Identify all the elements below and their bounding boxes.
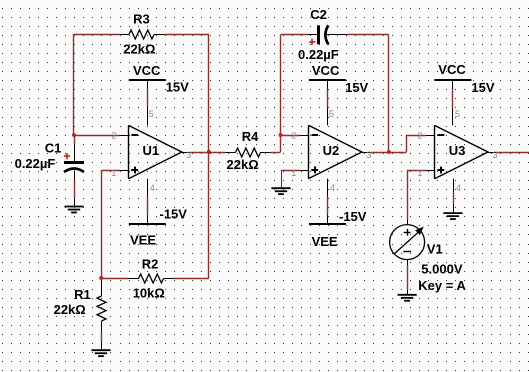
svg-text:0.22µF: 0.22µF	[298, 47, 339, 62]
svg-text:1: 1	[417, 168, 422, 178]
svg-text:R1: R1	[74, 287, 91, 302]
svg-text:U3: U3	[449, 143, 466, 158]
svg-text:15V: 15V	[345, 80, 368, 95]
svg-text:U2: U2	[323, 143, 340, 158]
svg-text:2: 2	[111, 131, 116, 141]
svg-text:U1: U1	[143, 143, 160, 158]
svg-text:VCC: VCC	[133, 63, 161, 78]
svg-text:15V: 15V	[166, 80, 189, 95]
svg-text:VCC: VCC	[438, 62, 466, 77]
svg-text:4: 4	[150, 183, 155, 193]
svg-text:V1: V1	[427, 241, 443, 256]
svg-text:R2: R2	[142, 257, 159, 272]
svg-text:VEE: VEE	[312, 234, 338, 249]
svg-text:R3: R3	[133, 12, 150, 27]
svg-text:2: 2	[417, 131, 422, 141]
svg-text:22kΩ: 22kΩ	[54, 302, 86, 317]
svg-text:3: 3	[366, 150, 371, 160]
svg-text:3: 3	[186, 150, 191, 160]
svg-text:5: 5	[329, 109, 334, 119]
svg-text:-15V: -15V	[160, 207, 188, 222]
svg-text:C2: C2	[310, 7, 327, 22]
svg-text:22kΩ: 22kΩ	[123, 41, 155, 56]
svg-text:VEE: VEE	[130, 233, 156, 248]
svg-text:15V: 15V	[471, 80, 494, 95]
svg-text:4: 4	[456, 183, 461, 193]
svg-text:1: 1	[111, 168, 116, 178]
svg-text:-15V: -15V	[339, 209, 367, 224]
svg-text:5.000V: 5.000V	[421, 261, 463, 276]
svg-text:22kΩ: 22kΩ	[227, 157, 259, 172]
svg-text:2: 2	[291, 131, 296, 141]
svg-text:C1: C1	[45, 141, 62, 156]
svg-text:0.22µF: 0.22µF	[15, 156, 56, 171]
svg-text:Key = A: Key = A	[418, 278, 466, 293]
svg-text:VCC: VCC	[312, 63, 340, 78]
svg-text:5: 5	[149, 109, 154, 119]
svg-text:4: 4	[330, 183, 335, 193]
svg-text:10kΩ: 10kΩ	[133, 285, 165, 300]
svg-text:R4: R4	[242, 129, 259, 144]
svg-text:1: 1	[291, 168, 296, 178]
svg-text:5: 5	[455, 109, 460, 119]
svg-text:3: 3	[493, 150, 498, 160]
